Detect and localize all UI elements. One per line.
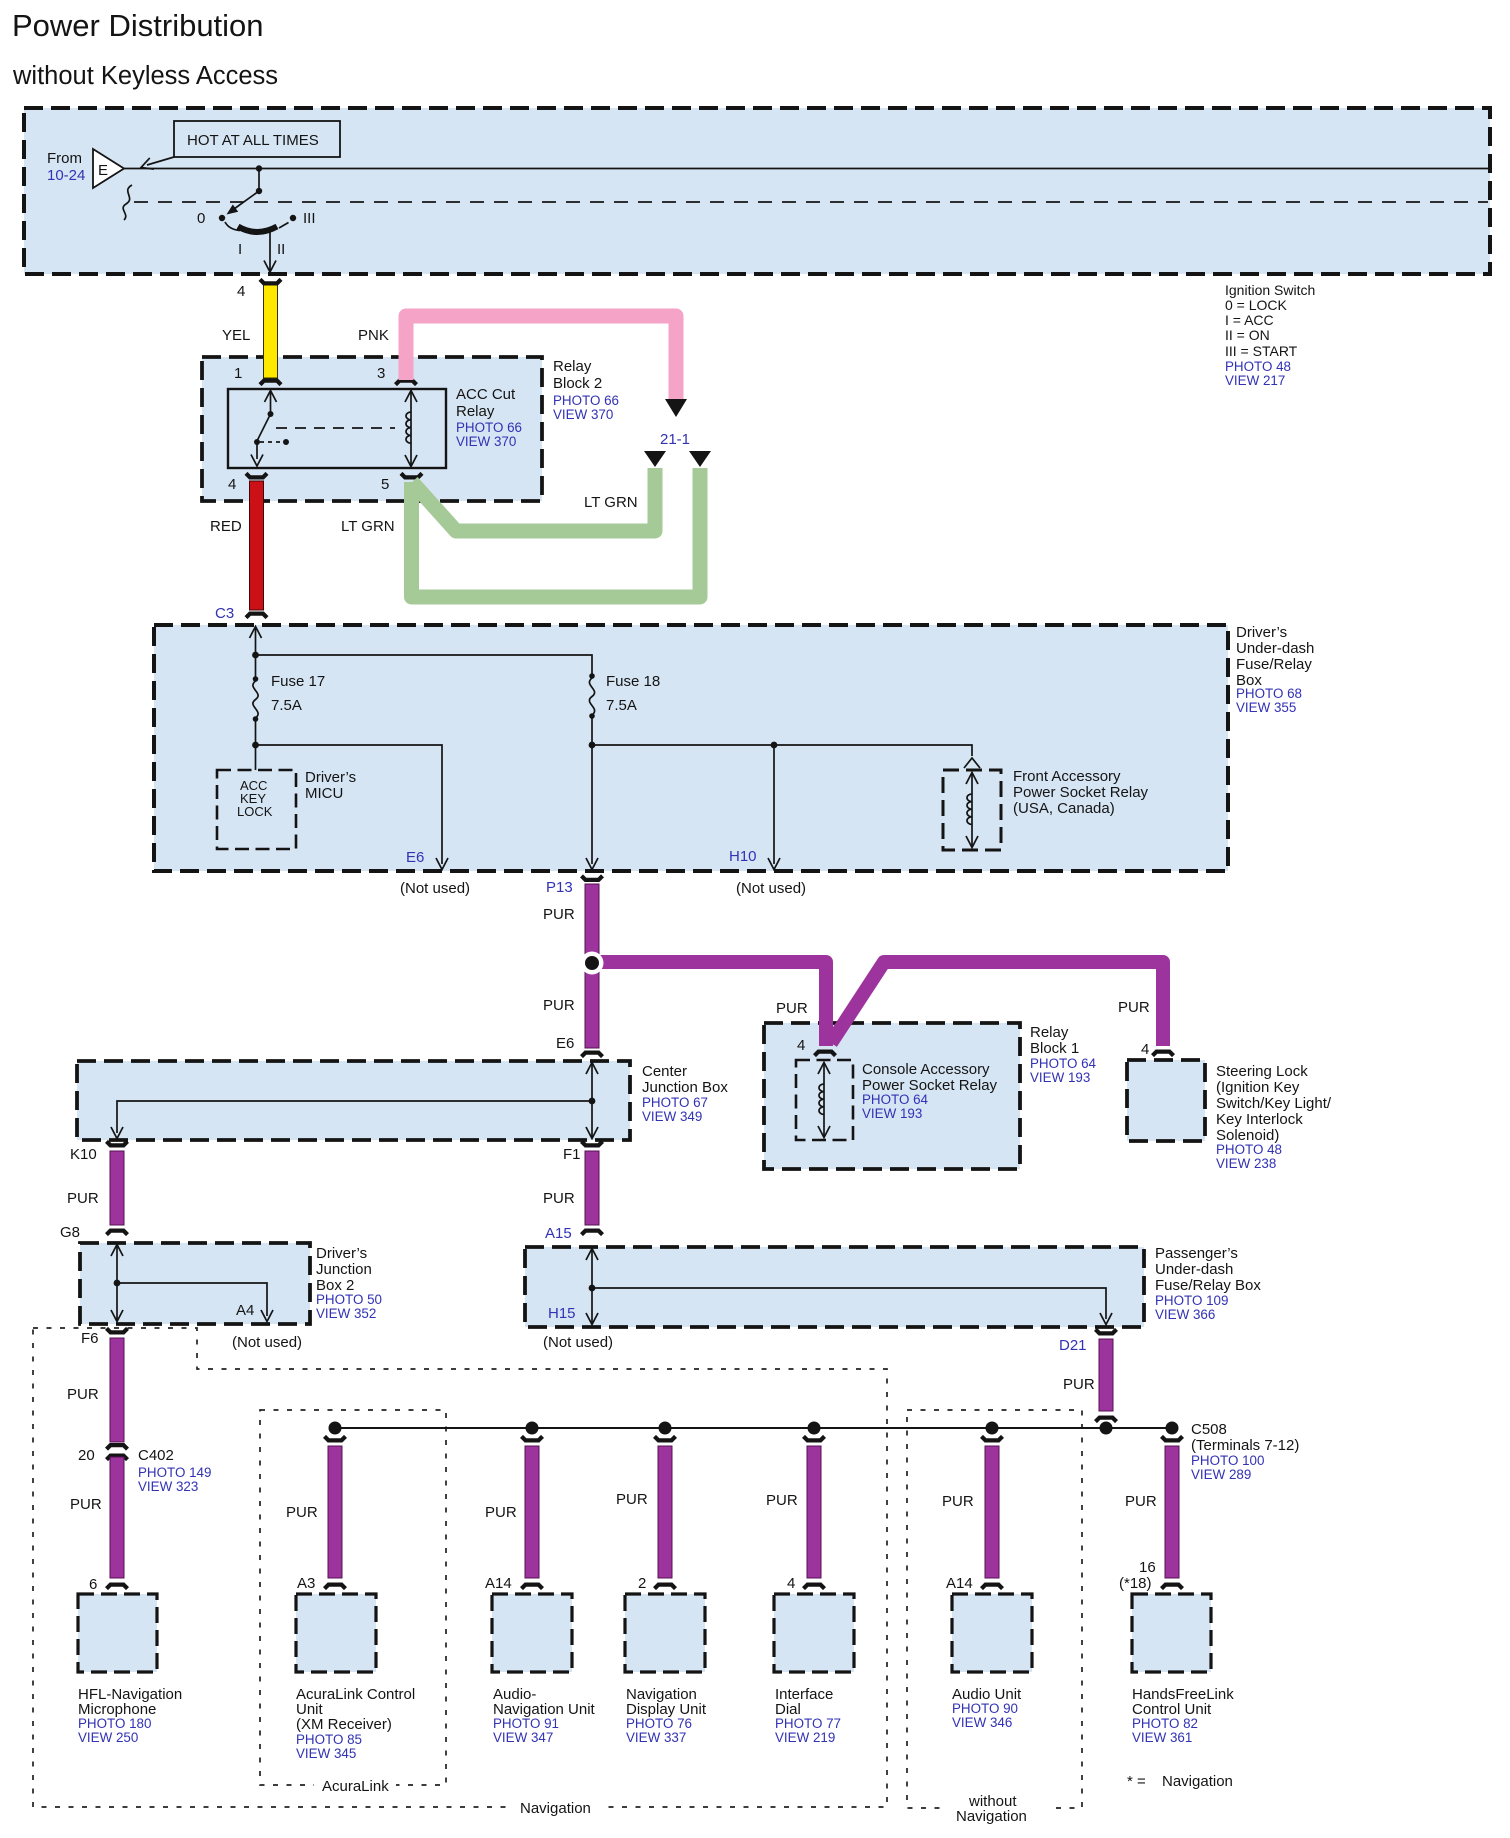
interface dial box (774, 1594, 854, 1672)
svg-text:(*18): (*18) (1119, 1575, 1152, 1592)
svg-text:(Not used): (Not used) (736, 880, 806, 897)
connector F6 (81, 1328, 128, 1347)
handsfreelink control unit box (1132, 1594, 1211, 1672)
center junction box internal wire (111, 1063, 598, 1139)
svg-text:PHOTO 180: PHOTO 180 (78, 1716, 151, 1731)
console relay coil (818, 1063, 830, 1138)
svg-text:Power Socket Relay: Power Socket Relay (1013, 784, 1149, 801)
wire RED (210, 481, 264, 610)
svg-text:VIEW 323: VIEW 323 (138, 1479, 198, 1494)
ignition switch note (1225, 282, 1315, 388)
wire to front accessory relay (592, 745, 972, 756)
svg-text:Fuse/Relay Box: Fuse/Relay Box (1155, 1277, 1261, 1294)
svg-text:PHOTO 85: PHOTO 85 (296, 1732, 362, 1747)
svg-text:Driver’s: Driver’s (316, 1245, 367, 1262)
entry wire from C3 (250, 627, 262, 659)
svg-text:VIEW 337: VIEW 337 (626, 1730, 686, 1745)
svg-text:Block 1: Block 1 (1030, 1040, 1079, 1057)
connector yellow top (260, 279, 281, 283)
pin 4 steering lock (1141, 1041, 1174, 1058)
svg-text:4: 4 (237, 283, 245, 300)
svg-text:PHOTO 66: PHOTO 66 (456, 420, 522, 435)
svg-text:4: 4 (797, 1037, 805, 1054)
svg-text:PHOTO 90: PHOTO 90 (952, 1701, 1018, 1716)
svg-text:LT GRN: LT GRN (341, 518, 395, 535)
svg-text:H15: H15 (548, 1305, 576, 1322)
label H15 (548, 1305, 576, 1322)
svg-text:A15: A15 (545, 1225, 572, 1242)
without navigation group box (907, 1410, 1082, 1825)
svg-text:Navigation: Navigation (520, 1800, 591, 1817)
connector F1 (563, 1141, 603, 1163)
svg-text:PHOTO 76: PHOTO 76 (626, 1716, 692, 1731)
label 21-1 (660, 431, 690, 448)
audio unit label (952, 1686, 1022, 1730)
wire to fuse 18 (256, 655, 593, 674)
svg-text:(Not used): (Not used) (232, 1334, 302, 1351)
svg-text:PHOTO 82: PHOTO 82 (1132, 1716, 1198, 1731)
label From 10-24 (47, 150, 85, 184)
svg-text:PUR: PUR (67, 1386, 99, 1403)
wire PUR to navigation display unit (616, 1436, 676, 1592)
not used E6 (400, 880, 470, 897)
svg-text:LOCK: LOCK (237, 804, 273, 819)
acuralink control unit label (296, 1686, 415, 1761)
svg-text:VIEW 349: VIEW 349 (642, 1109, 702, 1124)
svg-text:Fuse 17: Fuse 17 (271, 673, 325, 690)
svg-text:Junction Box: Junction Box (642, 1079, 728, 1096)
svg-text:PHOTO 64: PHOTO 64 (1030, 1056, 1097, 1071)
svg-text:G8: G8 (60, 1224, 80, 1241)
svg-text:PUR: PUR (543, 906, 575, 923)
fuse 17 (253, 655, 326, 745)
passengers under-dash fuse/relay box (525, 1247, 1144, 1327)
svg-text:VIEW 250: VIEW 250 (78, 1730, 138, 1745)
wire PUR to handsfreelink control unit (1119, 1436, 1183, 1592)
svg-text:PHOTO 68: PHOTO 68 (1236, 686, 1302, 701)
svg-text:(Not used): (Not used) (400, 880, 470, 897)
node handsfreelink drop (1166, 1422, 1179, 1435)
svg-text:Fuse 18: Fuse 18 (606, 673, 660, 690)
svg-text:PHOTO 149: PHOTO 149 (138, 1465, 211, 1480)
svg-text:(Ignition Key: (Ignition Key (1216, 1079, 1300, 1096)
drivers under-dash fuse/relay box (154, 625, 1228, 871)
svg-text:PUR: PUR (70, 1496, 102, 1513)
svg-text:Switch/Key Light/: Switch/Key Light/ (1216, 1095, 1332, 1112)
Relay Block 2 label (553, 358, 619, 422)
svg-text:7.5A: 7.5A (606, 697, 637, 714)
svg-text:VIEW 346: VIEW 346 (952, 1715, 1012, 1730)
drivers junction box 2 internal wire (111, 1245, 273, 1322)
navigation group box (33, 1328, 887, 1817)
svg-text:PHOTO 48: PHOTO 48 (1225, 359, 1291, 374)
node under fuse 17 (252, 742, 259, 749)
svg-text:PUR: PUR (1063, 1376, 1095, 1393)
wire PUR to interface dial (766, 1436, 825, 1592)
svg-text:VIEW 355: VIEW 355 (1236, 700, 1296, 715)
console relay block 1 box (764, 1023, 1020, 1169)
svg-text:K10: K10 (70, 1146, 97, 1163)
connector K10 (70, 1141, 128, 1163)
svg-text:III = START: III = START (1225, 343, 1298, 359)
fuse box label (1236, 624, 1314, 715)
node H10 branch (771, 742, 778, 749)
svg-text:A14: A14 (485, 1575, 512, 1592)
steering lock label (1216, 1063, 1332, 1171)
node acuralink drop (329, 1422, 342, 1435)
svg-text:YEL: YEL (222, 327, 250, 344)
wire to H10 (729, 745, 780, 870)
wire to P13 (586, 745, 598, 870)
svg-text:Under-dash: Under-dash (1155, 1261, 1233, 1278)
svg-text:VIEW 345: VIEW 345 (296, 1746, 356, 1761)
svg-text:PHOTO 50: PHOTO 50 (316, 1292, 382, 1307)
wire PUR to acuralink control unit (286, 1436, 346, 1592)
svg-text:VIEW 238: VIEW 238 (1216, 1156, 1276, 1171)
subtitle without Keyless Access (12, 62, 278, 90)
svg-text:5: 5 (381, 476, 389, 493)
node audio-navigation drop (526, 1422, 539, 1435)
svg-text:(USA, Canada): (USA, Canada) (1013, 800, 1115, 817)
switch position labels (197, 210, 316, 258)
svg-text:Console Accessory: Console Accessory (862, 1061, 990, 1078)
svg-text:VIEW 289: VIEW 289 (1191, 1467, 1251, 1482)
label C508 (1191, 1421, 1299, 1482)
svg-text:Under-dash: Under-dash (1236, 640, 1314, 657)
wire PUR C402 to HFL microphone (70, 1457, 124, 1578)
svg-text:E: E (98, 162, 108, 179)
center junction box (77, 1061, 630, 1140)
svg-text:PHOTO 64: PHOTO 64 (862, 1092, 929, 1107)
svg-text:H10: H10 (729, 848, 757, 865)
svg-text:PUR: PUR (616, 1491, 648, 1508)
svg-text:III: III (303, 210, 316, 227)
HOT AT ALL TIMES box (174, 121, 340, 157)
wire PUR F1 to A15 (543, 1151, 599, 1225)
svg-text:PHOTO 67: PHOTO 67 (642, 1095, 708, 1110)
wire PUR K10 to G8 (67, 1151, 124, 1225)
node audio unit drop (986, 1422, 999, 1435)
ACC cut relay internal box (228, 389, 446, 468)
svg-text:PHOTO 77: PHOTO 77 (775, 1716, 841, 1731)
svg-text:MICU: MICU (305, 785, 343, 802)
note navigation asterisk (1127, 1773, 1233, 1790)
HFL-navigation microphone box (78, 1594, 157, 1672)
ACC Cut Relay label (456, 386, 522, 449)
drivers MICU label (305, 769, 356, 802)
svg-text:PUR: PUR (942, 1493, 974, 1510)
svg-text:6: 6 (89, 1576, 97, 1593)
wire D21 PUR (1059, 1329, 1117, 1421)
svg-text:VIEW 361: VIEW 361 (1132, 1730, 1192, 1745)
svg-text:E6: E6 (556, 1035, 574, 1052)
svg-text:VIEW 352: VIEW 352 (316, 1306, 376, 1321)
svg-text:Front Accessory: Front Accessory (1013, 768, 1121, 785)
connector C402 (78, 1445, 211, 1494)
svg-text:(Terminals 7-12): (Terminals 7-12) (1191, 1437, 1299, 1454)
svg-text:21-1: 21-1 (660, 431, 690, 448)
front accessory relay label (1013, 768, 1149, 817)
svg-text:PHOTO 100: PHOTO 100 (1191, 1453, 1264, 1468)
pin labels 4 5 (228, 476, 389, 493)
svg-text:(XM Receiver): (XM Receiver) (296, 1716, 392, 1733)
svg-text:without Keyless Access: without Keyless Access (12, 62, 278, 90)
arrow 21-1 top (665, 399, 687, 417)
svg-text:0 = LOCK: 0 = LOCK (1225, 297, 1288, 313)
svg-text:0: 0 (197, 210, 205, 227)
svg-text:Key Interlock: Key Interlock (1216, 1111, 1303, 1128)
not used H10 (736, 880, 806, 897)
svg-text:Navigation: Navigation (1162, 1773, 1233, 1790)
svg-text:I = ACC: I = ACC (1225, 312, 1274, 328)
not used A4 (232, 1334, 302, 1351)
svg-text:PUR: PUR (1125, 1493, 1157, 1510)
svg-text:16: 16 (1139, 1559, 1156, 1576)
svg-text:VIEW 193: VIEW 193 (862, 1106, 922, 1121)
squiggle interrupt (123, 185, 132, 220)
relay block 1 label (1030, 1024, 1097, 1085)
drivers junction box 2 label (316, 1245, 382, 1321)
svg-text:D21: D21 (1059, 1337, 1087, 1354)
svg-text:Center: Center (642, 1063, 687, 1080)
svg-text:Driver’s: Driver’s (305, 769, 356, 786)
wire to E6 (256, 745, 449, 870)
relay switch contact (251, 391, 395, 467)
svg-text:LT GRN: LT GRN (584, 494, 638, 511)
acuralink group box (260, 1410, 446, 1795)
wire to drivers MICU (255, 745, 257, 770)
svg-text:VIEW 193: VIEW 193 (1030, 1070, 1090, 1085)
svg-text:Passenger’s: Passenger’s (1155, 1245, 1238, 1262)
svg-text:PNK: PNK (358, 327, 389, 344)
wire hot feed line (124, 168, 1488, 170)
svg-text:II: II (277, 241, 285, 258)
svg-text:PHOTO 91: PHOTO 91 (493, 1716, 559, 1731)
wire PUR to audio-navigation unit (485, 1436, 543, 1592)
connector pin 3 (396, 381, 417, 385)
ignition switch contacts (219, 165, 296, 272)
svg-text:C508: C508 (1191, 1421, 1227, 1438)
svg-text:VIEW 366: VIEW 366 (1155, 1307, 1215, 1322)
svg-text:Block 2: Block 2 (553, 375, 602, 392)
not used H15 (543, 1334, 613, 1351)
wire PUR F6 to C402 (67, 1338, 124, 1442)
svg-text:Fuse/Relay: Fuse/Relay (1236, 656, 1312, 673)
svg-text:4: 4 (1141, 1041, 1149, 1058)
acuralink control unit box (296, 1594, 376, 1672)
fuse 18 (589, 673, 660, 745)
svg-text:P13: P13 (546, 879, 573, 896)
drivers junction box 2 (80, 1243, 310, 1324)
svg-text:PUR: PUR (766, 1492, 798, 1509)
steering lock box (1127, 1060, 1205, 1141)
connector pin 5 (401, 473, 422, 477)
chevron connector front accessory relay (964, 758, 980, 768)
wire PUR branch to relay block 1 and steering lock (592, 962, 1163, 1046)
svg-text:Power Distribution: Power Distribution (12, 8, 264, 43)
svg-text:PUR: PUR (1118, 999, 1150, 1016)
svg-text:E6: E6 (406, 849, 424, 866)
svg-text:VIEW 347: VIEW 347 (493, 1730, 553, 1745)
junction node on PUR (581, 952, 604, 975)
svg-text:VIEW 370: VIEW 370 (553, 407, 613, 422)
node under fuse 18 (589, 742, 596, 749)
svg-text:PUR: PUR (286, 1504, 318, 1521)
svg-text:PUR: PUR (543, 997, 575, 1014)
svg-text:PUR: PUR (543, 1190, 575, 1207)
console relay label (862, 1061, 998, 1121)
connector C3 (215, 605, 267, 622)
connector A15 (545, 1225, 603, 1242)
svg-text:A3: A3 (297, 1575, 315, 1592)
svg-text:PUR: PUR (485, 1504, 517, 1521)
wire LT GRN outer loop (412, 468, 701, 597)
connector E6 center box (582, 1053, 603, 1057)
HFL-navigation microphone label (78, 1686, 182, 1745)
navigation display unit box (625, 1594, 705, 1672)
wire PNK (358, 316, 676, 399)
wire PUR to audio unit (942, 1436, 1003, 1592)
audio-navigation unit box (492, 1594, 572, 1672)
svg-text:A14: A14 (946, 1575, 973, 1592)
power feed triangle E (93, 149, 124, 188)
svg-text:From: From (47, 150, 82, 167)
svg-text:4: 4 (228, 476, 236, 493)
title Power Distribution (12, 8, 264, 43)
svg-text:A4: A4 (236, 1302, 254, 1319)
svg-text:RED: RED (210, 518, 242, 535)
pin 4 label ignition (237, 283, 245, 300)
svg-text:C3: C3 (215, 605, 234, 622)
pin labels 1 3 (234, 365, 385, 382)
wire PUR P13 to E6 (543, 884, 599, 1048)
audio-navigation unit label (493, 1686, 596, 1745)
svg-text:F1: F1 (563, 1146, 581, 1163)
svg-text:PHOTO 48: PHOTO 48 (1216, 1142, 1282, 1157)
svg-text:PUR: PUR (67, 1190, 99, 1207)
svg-text:ACC Cut: ACC Cut (456, 386, 516, 403)
connector P13 (546, 876, 603, 896)
wire LT GRN inner loop (341, 468, 655, 535)
svg-text:C402: C402 (138, 1447, 174, 1464)
relay coil (405, 391, 417, 467)
connector pin 1 (260, 381, 281, 385)
arrow 21-1 right return (689, 451, 711, 467)
interface dial label (775, 1686, 841, 1745)
svg-text:1: 1 (234, 365, 242, 382)
arrow from HOT box to feed line (139, 157, 174, 173)
passengers box label (1155, 1245, 1261, 1322)
svg-text:I: I (238, 241, 242, 258)
svg-text:VIEW 217: VIEW 217 (1225, 373, 1285, 388)
svg-text:Relay: Relay (553, 358, 592, 375)
svg-text:Relay: Relay (456, 403, 495, 420)
svg-text:Driver’s: Driver’s (1236, 624, 1287, 641)
svg-text:4: 4 (787, 1575, 795, 1592)
connector 6 HFL microphone (89, 1576, 128, 1593)
svg-text:2: 2 (638, 1575, 646, 1592)
svg-text:VIEW 370: VIEW 370 (456, 434, 516, 449)
node interface dial drop (808, 1422, 821, 1435)
navigation display unit label (626, 1686, 707, 1745)
audio unit box (952, 1594, 1032, 1672)
svg-text:Junction: Junction (316, 1261, 372, 1278)
console relay inner box (796, 1060, 853, 1140)
svg-text:10-24: 10-24 (47, 167, 85, 184)
label E6 center box (556, 1035, 574, 1052)
svg-text:F6: F6 (81, 1330, 99, 1347)
svg-text:Steering Lock: Steering Lock (1216, 1063, 1308, 1080)
handsfreelink control unit label (1132, 1686, 1234, 1745)
svg-text:Ignition Switch: Ignition Switch (1225, 282, 1315, 298)
svg-text:PUR: PUR (776, 1000, 808, 1017)
svg-text:PHOTO 109: PHOTO 109 (1155, 1293, 1228, 1308)
connector pin 4 (246, 473, 267, 477)
svg-text:Relay: Relay (1030, 1024, 1069, 1041)
svg-text:VIEW 219: VIEW 219 (775, 1730, 835, 1745)
pin 4 console relay (797, 1037, 836, 1056)
connector G8 (60, 1224, 128, 1241)
svg-text:7.5A: 7.5A (271, 697, 302, 714)
wire YEL (222, 285, 278, 378)
node D21 on bus (1100, 1422, 1113, 1435)
svg-text:II = ON: II = ON (1225, 327, 1270, 343)
arrow 21-1 left return (644, 451, 666, 467)
front accessory power socket relay box (943, 770, 1001, 850)
dashed start line (134, 201, 1488, 203)
svg-text:AcuraLink: AcuraLink (322, 1778, 389, 1795)
svg-text:3: 3 (377, 365, 385, 382)
svg-text:20: 20 (78, 1447, 95, 1464)
bus wire C508 (335, 1427, 1172, 1429)
center junction box label (642, 1063, 728, 1124)
svg-text:(Not used): (Not used) (543, 1334, 613, 1351)
relay block 2 box (202, 357, 542, 501)
svg-text:* =: * = (1127, 1773, 1146, 1790)
svg-text:PHOTO 66: PHOTO 66 (553, 393, 619, 408)
passengers box internal wire (586, 1249, 1112, 1325)
ignition switch box (24, 108, 1490, 274)
front accessory relay coil (966, 773, 978, 848)
node navigation display drop (659, 1422, 672, 1435)
ACC KEY LOCK block drivers MICU (217, 770, 296, 849)
svg-text:HOT AT ALL TIMES: HOT AT ALL TIMES (187, 132, 319, 149)
svg-text:Navigation: Navigation (956, 1808, 1027, 1825)
